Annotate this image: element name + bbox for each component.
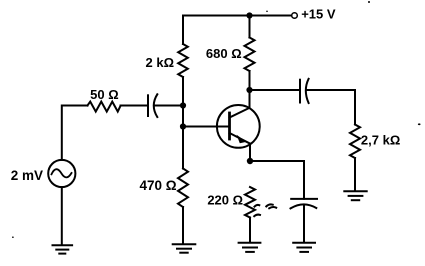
wire collector to output capacitor (250, 89, 301, 91)
ground for bypass capacitor (293, 243, 315, 252)
wire bypass capacitor bottom lead (303, 205, 305, 243)
node supply rail junction (246, 12, 252, 18)
resistor 50 Ohm (88, 102, 121, 112)
ground for 470 Ohm (173, 244, 196, 252)
wire top supply rail (183, 15, 291, 17)
wire capacitor to base node (155, 105, 183, 107)
capacitor output coupling (left plate) (299, 80, 301, 103)
svg-text:50 Ω: 50 Ω (90, 87, 119, 102)
source V 2 mV (48, 160, 75, 187)
stray squiggle upper stroke (266, 204, 272, 206)
node base (junction dot) (180, 123, 186, 129)
node collector junction (246, 87, 252, 93)
transistor Q1 (circle) (217, 105, 260, 148)
wire resistor to capacitor (121, 105, 149, 107)
ground for source (53, 245, 73, 253)
wire emitter lead (249, 144, 251, 161)
resistor 680 Ohm (245, 38, 255, 72)
capacitor output coupling (curved right plate) (306, 79, 309, 103)
svg-text:2,7 kΩ: 2,7 kΩ (361, 132, 400, 147)
capacitor input coupling (left plate) (147, 95, 149, 116)
wire 2k top lead (182, 16, 184, 45)
node input (junction dot) (180, 102, 186, 108)
wire 2,7k bottom lead (354, 158, 356, 191)
capacitor bypass (curved bottom plate) (291, 204, 317, 208)
capacitor input coupling (curved right plate) (154, 94, 158, 117)
wire 680 top lead (249, 16, 251, 38)
transistor Q1 base bar (228, 113, 231, 139)
wire 470 bottom lead (182, 207, 184, 244)
terminal +15 V (292, 13, 298, 19)
resistor 470 Ohm (178, 169, 188, 208)
svg-text:2 mV: 2 mV (11, 168, 43, 183)
sine wave inside source (52, 169, 72, 177)
transistor Q1 emitter arrowhead (237, 135, 247, 144)
wire bias line (182, 77, 184, 169)
svg-text:470 Ω: 470 Ω (139, 178, 176, 193)
resistor 2 kOhm (178, 44, 188, 77)
svg-text:+15 V: +15 V (301, 7, 336, 22)
wire source top lead (62, 106, 88, 160)
node emitter junction (247, 158, 253, 164)
wire capacitor to load (307, 90, 356, 125)
ground for 2,7 kOhm (344, 191, 366, 200)
wire source bottom lead (61, 187, 63, 245)
transistor Q1 collector stroke (230, 108, 250, 118)
resistor 2,7 kOhm (350, 125, 360, 159)
svg-text:2 kΩ: 2 kΩ (146, 55, 175, 70)
wire base (183, 126, 230, 128)
transistor Q1 emitter stroke (230, 133, 251, 144)
wire collector lead (249, 71, 251, 108)
ground for 220 Ohm (239, 243, 261, 252)
resistor 220 Ohm (245, 187, 255, 218)
wire emitter to bypass capacitor (250, 161, 304, 199)
stray mark lower left (254, 215, 260, 217)
wire 220 bottom lead (249, 218, 251, 243)
svg-text:220 Ω: 220 Ω (207, 192, 243, 207)
svg-text:680 Ω: 680 Ω (206, 46, 242, 61)
capacitor bypass (top plate) (291, 198, 317, 200)
stray squiggle lower stroke (269, 207, 276, 208)
stray mark upper left (255, 205, 260, 207)
